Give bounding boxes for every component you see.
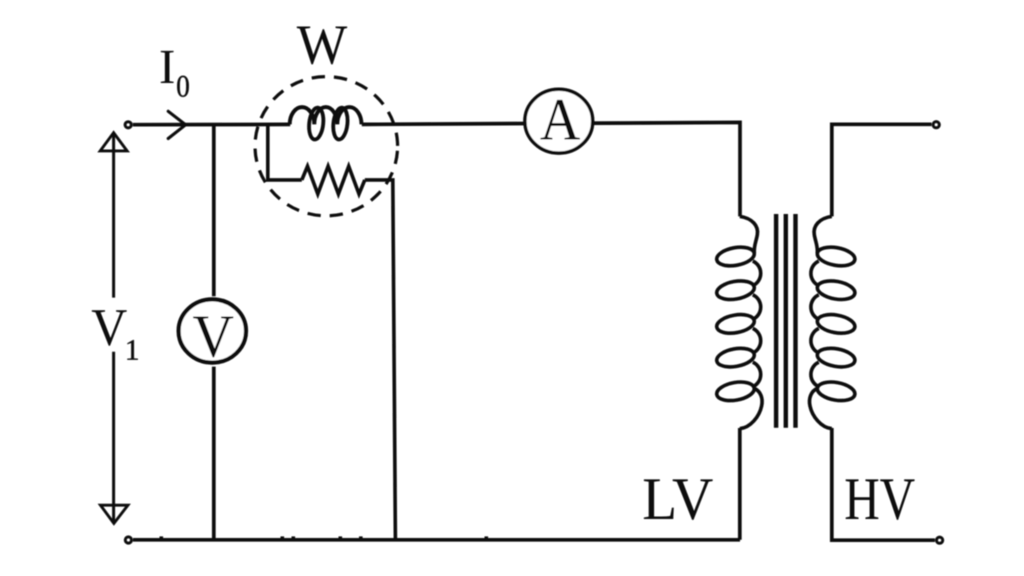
transformer core (three vertical bars) xyxy=(776,214,795,428)
wire voltmeter branch lower xyxy=(212,367,216,540)
svg-text:W: W xyxy=(297,15,348,77)
transformer HV winding (right coil, mirror of LV) xyxy=(810,216,857,428)
terminal top-right xyxy=(933,122,939,128)
wire HV bottom lead to bottom-right terminal xyxy=(832,428,935,540)
wire voltmeter branch upper xyxy=(212,126,216,296)
wattmeter resistor zigzag xyxy=(302,166,365,194)
svg-text:HV: HV xyxy=(844,466,915,533)
wire LV bottom lead down to bottom rail xyxy=(738,428,742,540)
terminal bottom-right xyxy=(937,537,943,543)
terminal bottom-left xyxy=(125,537,131,543)
V1 measurement arrow lower segment xyxy=(112,352,115,522)
wire bottom rail xyxy=(133,538,740,542)
wire HV top lead to top-right terminal xyxy=(832,124,932,216)
wattmeter current coil (inductor humps) xyxy=(290,107,362,124)
wattmeter coil loop 1 xyxy=(308,107,325,140)
wattmeter resistor lead right and return wire to bottom xyxy=(365,180,396,540)
wattmeter voltage branch: drop from main wire xyxy=(268,124,302,180)
svg-text:V: V xyxy=(91,299,127,357)
junction speck marks on bottom rail xyxy=(160,536,489,538)
wire top main: left terminal to wattmeter coil start xyxy=(133,123,290,127)
svg-text:LV: LV xyxy=(642,466,713,533)
svg-text:A: A xyxy=(540,86,581,152)
current arrow on top wire xyxy=(168,111,185,138)
V1 measurement arrow upper segment xyxy=(112,134,115,298)
V1 arrowhead down (open triangle) xyxy=(101,505,128,523)
wattmeter dashed circle xyxy=(255,77,398,216)
wire top main: wattmeter coil end to corner above LV, then down to LV winding xyxy=(362,122,740,216)
svg-text:V: V xyxy=(193,303,235,370)
voltmeter V1 circle xyxy=(179,299,246,362)
ammeter circle xyxy=(525,89,593,153)
wattmeter coil loop 2 xyxy=(332,107,349,140)
svg-text:I: I xyxy=(159,39,175,94)
terminal top-left xyxy=(125,122,131,128)
transformer LV winding (left coil) xyxy=(715,216,762,428)
V1 arrowhead up (open triangle) xyxy=(100,133,127,151)
